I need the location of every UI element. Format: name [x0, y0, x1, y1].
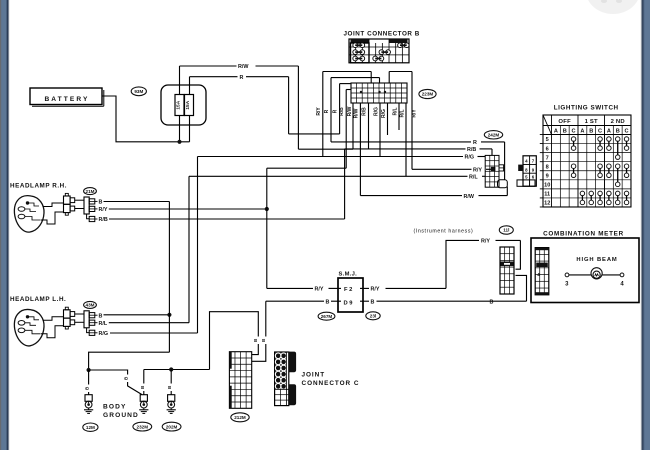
svg-text:R/L: R/L	[99, 321, 108, 327]
wire B out of SMJ D9	[360, 300, 369, 302]
wire R to 242M	[331, 141, 471, 143]
headlamp R.H. bulb	[14, 196, 44, 232]
connector label oval 212M	[231, 413, 249, 422]
connector label oval 223M	[419, 89, 436, 98]
connector label oval 232M	[133, 422, 152, 431]
svg-text:93M: 93M	[134, 89, 143, 94]
junction B ground	[167, 313, 171, 317]
lighting switch contact bars	[573, 139, 575, 148]
joint connector C braid	[275, 353, 286, 390]
svg-text:9: 9	[546, 173, 549, 179]
wire R/W (223M col6)	[359, 103, 361, 196]
wire R fuse2 to joint connector	[189, 77, 191, 95]
svg-text:B: B	[167, 386, 172, 389]
right blue border bar	[641, 0, 650, 450]
lighting switch connector (pins 4-9)	[523, 156, 536, 186]
svg-text:C: C	[572, 129, 576, 135]
wire R/G (223M col8)	[379, 103, 381, 157]
svg-text:OFF: OFF	[558, 119, 571, 125]
wire R/Y out of SMJ F2	[360, 287, 369, 289]
svg-text:R/W: R/W	[347, 106, 353, 116]
connector label oval 242M	[484, 131, 502, 139]
svg-text:11l: 11l	[503, 228, 509, 233]
wire B rail riser to joint connector	[210, 312, 259, 370]
joint connector B block	[349, 39, 409, 63]
svg-text:B: B	[261, 339, 266, 342]
headlamp R.H. filament wires	[28, 203, 40, 206]
svg-text:R/Y: R/Y	[99, 207, 108, 213]
svg-text:C: C	[598, 129, 602, 135]
connector 212M grid	[229, 352, 251, 409]
svg-text:R/B: R/B	[99, 217, 108, 223]
223M pin dots	[360, 91, 362, 93]
svg-text:12M: 12M	[86, 425, 95, 430]
table diagonal corner	[543, 115, 552, 135]
svg-text:GROUND: GROUND	[103, 412, 139, 419]
stub wires into 223M left edge	[340, 83, 351, 85]
wire B ground rail lower	[144, 369, 210, 371]
svg-text:R/G: R/G	[465, 155, 475, 161]
svg-text:R/Y: R/Y	[316, 107, 322, 116]
svg-text:A: A	[554, 129, 558, 135]
wire B riser to ground	[168, 202, 170, 353]
headlamp L.H. pin labels	[95, 314, 98, 316]
wire R/W to 242M	[360, 195, 462, 197]
svg-text:6: 6	[546, 146, 549, 152]
wire R/W fuse1 to joint connector	[179, 66, 181, 95]
wire R/L bus	[189, 175, 468, 177]
svg-text:8: 8	[546, 164, 549, 170]
connector label oval 11l	[499, 226, 513, 234]
connector 242M grid	[485, 155, 499, 187]
connector label oval 12M	[83, 423, 98, 431]
svg-text:R/G: R/G	[99, 331, 109, 337]
joint connector C lower grid	[275, 388, 289, 390]
wire into 223M top pin B	[379, 78, 381, 83]
headlamp L.H. terminals	[18, 321, 25, 326]
left blue border bar	[0, 0, 10, 450]
wire R/Y bracket into 111	[516, 240, 521, 269]
svg-text:HEADLAMP L.H.: HEADLAMP L.H.	[10, 296, 66, 303]
wire B down to 12M	[88, 370, 90, 385]
SMJ box	[338, 278, 363, 312]
svg-text:R/W: R/W	[238, 64, 249, 70]
ground symbol 12M	[88, 408, 90, 410]
wire R/Y (223M col1)	[322, 72, 324, 157]
svg-text:R/W: R/W	[353, 108, 359, 118]
svg-text:B: B	[253, 339, 258, 342]
svg-text:B: B	[124, 377, 129, 380]
junction R/Y to SMJ	[265, 207, 269, 211]
faded logo circle top right	[586, 0, 640, 14]
svg-text:R: R	[333, 109, 339, 113]
svg-text:B: B	[326, 299, 330, 305]
headlamp R.H. pin labels	[95, 200, 98, 202]
svg-text:21M: 21M	[86, 189, 95, 194]
svg-text:11: 11	[544, 192, 550, 198]
svg-text:F 2: F 2	[344, 287, 352, 293]
ground bolt 202M	[168, 395, 175, 402]
svg-text:JOINT: JOINT	[302, 371, 326, 378]
svg-text:B: B	[563, 129, 567, 135]
svg-text:R/Y: R/Y	[481, 239, 490, 245]
wire R/L (223M col10)	[398, 103, 400, 130]
svg-text:HEADLAMP R.H.: HEADLAMP R.H.	[10, 183, 67, 190]
svg-text:212M: 212M	[234, 415, 246, 420]
ground bolt 232M	[140, 395, 147, 402]
svg-text:CONNECTOR C: CONNECTOR C	[302, 380, 360, 387]
svg-text:7: 7	[546, 155, 549, 161]
svg-text:R/L: R/L	[392, 107, 398, 115]
battery	[30, 88, 102, 105]
fuse F2 15A	[185, 95, 194, 116]
svg-text:R/Y: R/Y	[315, 287, 324, 293]
headlamp L.H. inline connector	[64, 310, 71, 318]
svg-text:B: B	[371, 299, 375, 305]
svg-text:R/Y: R/Y	[473, 168, 482, 174]
svg-text:BODY: BODY	[103, 404, 126, 411]
svg-text:2 ND: 2 ND	[611, 119, 625, 125]
wire R/Y mid link	[267, 167, 346, 169]
svg-text:4: 4	[537, 272, 540, 277]
wire R/G riser	[197, 157, 199, 334]
svg-text:R/G: R/G	[381, 109, 387, 118]
svg-text:B: B	[99, 313, 103, 319]
svg-text:B: B	[140, 386, 145, 389]
svg-text:BATTERY: BATTERY	[44, 96, 89, 103]
connector label oval 267M	[318, 312, 335, 320]
svg-text:R/L: R/L	[469, 175, 478, 181]
242M bottom tab	[498, 180, 508, 188]
headlamp R.H. leads	[43, 203, 64, 207]
svg-text:C: C	[625, 129, 629, 135]
wire battery to fuses	[102, 96, 190, 142]
svg-text:HIGH BEAM: HIGH BEAM	[576, 257, 617, 263]
joint connector C side tabs	[289, 352, 296, 372]
242M side key	[499, 165, 504, 171]
lighting switch contact circles	[571, 137, 576, 142]
connector label oval 23l	[366, 312, 380, 320]
headlamp L.H. filament wires	[28, 317, 40, 320]
svg-text:267M: 267M	[321, 314, 333, 319]
wire B from SMJ to 212M	[265, 301, 267, 336]
svg-text:202M: 202M	[166, 424, 178, 429]
headlamp R.H. terminals	[18, 207, 25, 212]
headlamp L.H. bulb	[14, 309, 44, 345]
svg-text:D 9: D 9	[344, 300, 354, 306]
svg-text:(Instrument harness): (Instrument harness)	[414, 229, 474, 235]
wire B down to 232M	[143, 370, 145, 384]
svg-text:12: 12	[544, 201, 550, 207]
headlamp R.H. harness connector	[84, 197, 89, 214]
svg-text:43M: 43M	[86, 303, 95, 308]
wire to 232M via diagonal	[89, 370, 128, 375]
svg-text:R: R	[240, 75, 244, 81]
wire B headlamp RH	[104, 201, 170, 203]
headlamp L.H. harness connector	[84, 311, 89, 328]
junction ground 202M	[169, 367, 173, 371]
svg-text:A: A	[607, 129, 611, 135]
wire B into SMJ D9	[266, 300, 324, 302]
wire R/L (223M col11)	[405, 103, 407, 176]
svg-text:15A: 15A	[185, 100, 191, 109]
headlamp L.H. leads	[43, 317, 64, 321]
wire R (223M col2)	[330, 78, 332, 142]
wire R/Y to lighting switch	[411, 72, 413, 170]
svg-text:B: B	[589, 129, 593, 135]
svg-text:1 ST: 1 ST	[585, 119, 598, 125]
fuse block	[161, 85, 206, 125]
meter connector grid	[535, 248, 549, 295]
svg-text:R/W: R/W	[464, 194, 475, 200]
wire R/Y into SMJ F2	[267, 287, 313, 289]
wire R/G headlamp LH	[110, 332, 198, 334]
connector 223M block	[351, 83, 407, 103]
svg-text:B: B	[490, 299, 494, 305]
svg-text:R/Y: R/Y	[412, 109, 418, 118]
svg-text:242M: 242M	[488, 133, 500, 138]
wire R/B headlamp RH	[109, 218, 345, 220]
joint connector C block	[275, 352, 289, 406]
joint connector B pins	[353, 43, 358, 48]
connector 111 grid	[500, 247, 514, 294]
wire into 223M top pin A	[370, 72, 372, 84]
svg-text:S.M.J.: S.M.J.	[339, 271, 358, 277]
wire R/G (223M col9)	[387, 103, 389, 135]
wire R/B (223M col7)	[368, 103, 370, 149]
wire R/Y drop to SMJ	[266, 168, 268, 288]
svg-text:10: 10	[544, 183, 550, 189]
svg-text:223M: 223M	[422, 92, 434, 97]
junction ground 12M	[87, 368, 91, 372]
svg-text:R/Y: R/Y	[371, 287, 380, 293]
connector label oval 202M	[162, 422, 181, 431]
combination meter box	[531, 238, 639, 303]
wire B ground rail upper	[89, 352, 170, 370]
connector label oval 43M	[84, 301, 97, 308]
svg-text:B: B	[616, 129, 620, 135]
wire R/G bus	[198, 156, 464, 158]
connector label oval 21M	[84, 188, 97, 195]
fuse F1 15A	[175, 95, 184, 116]
svg-text:B: B	[85, 387, 90, 390]
svg-text:R: R	[473, 140, 477, 146]
svg-text:232M: 232M	[137, 424, 149, 429]
wire R/Y to 242M pin	[412, 168, 472, 170]
connector label oval 93M	[131, 87, 146, 96]
svg-text:23l: 23l	[370, 314, 376, 319]
high beam indicator lamp	[569, 274, 591, 276]
junction battery feed	[177, 140, 181, 144]
headlamp R.H. inline connector	[64, 196, 71, 204]
ground symbol 232M	[143, 408, 145, 410]
ground symbol 202M	[170, 408, 172, 410]
ground bolt 12M	[85, 395, 92, 402]
svg-text:R/L: R/L	[399, 109, 405, 117]
wire rail above 223M left	[323, 71, 371, 73]
lighting switch table frame	[543, 115, 631, 207]
wire R/L headlamp LH	[109, 322, 189, 324]
wire R/Y SMJ to instrument harness	[446, 240, 479, 288]
svg-text:COMBINATION METER: COMBINATION METER	[543, 230, 624, 237]
svg-text:LIGHTING SWITCH: LIGHTING SWITCH	[554, 105, 619, 112]
wire R/B to 242M	[345, 148, 466, 150]
svg-text:15A: 15A	[176, 100, 182, 109]
svg-text:R/B: R/B	[362, 107, 368, 116]
svg-text:B: B	[99, 200, 103, 206]
wire R/L riser	[188, 176, 190, 322]
wire R/B headlamp RH branch	[344, 149, 346, 219]
wire B headlamp LH	[104, 314, 170, 316]
wire R/Y headlamp RH	[109, 208, 267, 210]
svg-text:R/B: R/B	[467, 147, 476, 153]
svg-text:5: 5	[546, 137, 549, 143]
svg-text:R/B: R/B	[339, 107, 345, 116]
svg-text:R: R	[324, 109, 330, 113]
svg-text:A: A	[580, 129, 584, 135]
svg-text:JOINT CONNECTOR B: JOINT CONNECTOR B	[344, 31, 420, 38]
wire B down to 202M	[170, 370, 172, 384]
wire rail above 223M right (R/Y)	[389, 71, 412, 73]
svg-text:R/G: R/G	[373, 107, 379, 116]
